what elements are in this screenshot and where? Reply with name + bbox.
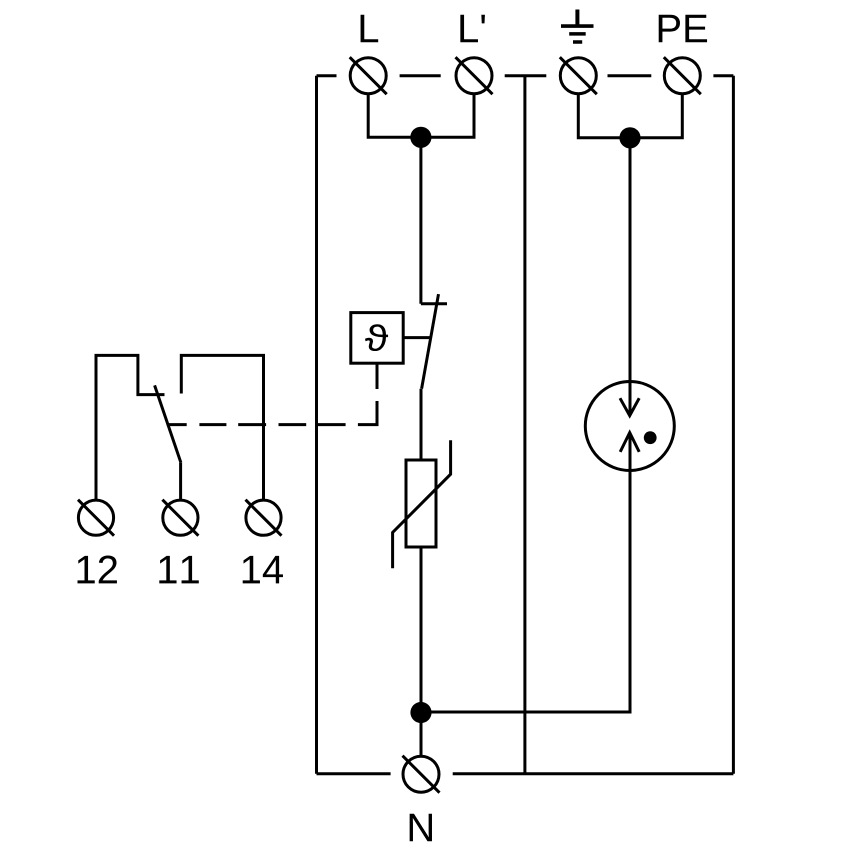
enclosure border top segment 3 bbox=[505, 74, 547, 77]
label N bbox=[410, 814, 432, 842]
enclosure border top segment 4 bbox=[608, 74, 652, 77]
wire: middle vertical bus bbox=[523, 76, 526, 774]
gas discharge tube gas-filled dot bbox=[644, 431, 657, 444]
thermal element U1 box bbox=[351, 313, 403, 364]
terminal L' bbox=[456, 57, 493, 94]
label theta bbox=[365, 324, 388, 351]
wire: L and L' down to junction bbox=[368, 94, 474, 138]
label 14 bbox=[243, 556, 283, 584]
label 12 bbox=[78, 555, 117, 583]
wire: bottom junction to GDT bbox=[421, 471, 630, 713]
label L' bbox=[460, 15, 485, 43]
enclosure border top segment 1 bbox=[317, 74, 337, 77]
thermal disconnector switch arm bbox=[422, 294, 439, 389]
gas discharge tube lower arrowhead bbox=[620, 433, 639, 452]
enclosure border top segment 5 bbox=[713, 74, 733, 77]
junction node L/L' bbox=[410, 127, 431, 148]
terminal L bbox=[350, 57, 387, 94]
wire: arm to terminal 11 bbox=[179, 463, 182, 500]
wire: junction to terminal N bbox=[420, 713, 423, 757]
varistor diagonal stroke bbox=[393, 440, 451, 568]
varistor body bbox=[406, 460, 436, 547]
wire: earth junction down to GDT, arrow line bbox=[629, 138, 632, 415]
relay changeover arm bbox=[155, 385, 181, 462]
wire: varistor to bottom junction bbox=[420, 547, 423, 713]
dashed control linkage bbox=[167, 365, 377, 425]
terminal 14 bbox=[246, 500, 282, 536]
enclosure border bottom (right of N terminal) bbox=[453, 772, 734, 775]
enclosure border bottom (left of N terminal) bbox=[317, 772, 391, 775]
thermal disconnector fixed contact bbox=[421, 302, 447, 305]
wire: junction down to disconnector bbox=[419, 137, 422, 303]
terminal PE bbox=[664, 57, 701, 94]
relay contact 12 fixed contact wire bbox=[96, 355, 165, 500]
terminal 11 bbox=[162, 500, 198, 536]
enclosure border left side bbox=[315, 76, 318, 774]
relay contact 14 fixed contact wire bbox=[181, 355, 263, 500]
enclosure border top segment 2 bbox=[400, 74, 441, 77]
terminal N bbox=[403, 756, 440, 793]
gas discharge tube upper arrowhead bbox=[620, 398, 639, 415]
wire: thermal element to switch arm bbox=[403, 336, 430, 339]
wire: disconnector to varistor bbox=[420, 389, 423, 460]
enclosure border right side bbox=[732, 76, 735, 774]
gas discharge tube lower electrode line bbox=[629, 433, 632, 712]
label PE bbox=[659, 15, 707, 43]
label 11 bbox=[159, 556, 198, 584]
wire: earth and PE down to junction bbox=[578, 94, 682, 138]
junction node earth/PE bbox=[619, 127, 640, 148]
ground symbol bbox=[561, 10, 594, 43]
junction node varistor/GDT/N bbox=[410, 702, 431, 723]
gas discharge tube G1 circle bbox=[585, 382, 674, 471]
terminal earth bbox=[560, 57, 597, 94]
terminal 12 bbox=[78, 500, 114, 536]
label L bbox=[361, 15, 379, 43]
